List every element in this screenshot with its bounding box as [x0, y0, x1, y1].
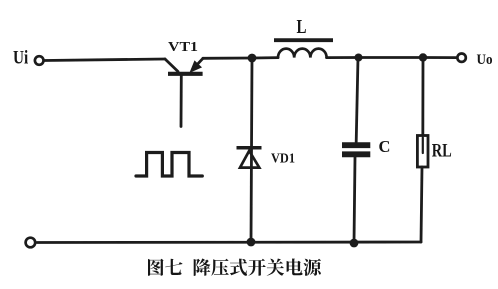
VT1 emitter arrowhead [191, 62, 201, 72]
diode VD1 triangle (anode, pointing up) [240, 151, 259, 168]
drive pulse waveform (square wave) [136, 153, 202, 177]
svg-text:Ui: Ui [13, 48, 28, 69]
wire: node B to node C [359, 56, 424, 59]
wire: node A down through diode VD1 to node D [251, 58, 252, 242]
svg-text:RL: RL [432, 140, 452, 161]
svg-text:Uo: Uo [477, 52, 493, 68]
wire: node C down to resistor RL [421, 58, 424, 153]
node D junction dot (bottom, diode) [247, 238, 256, 247]
wire: Ui terminal to VT1 emitter [44, 59, 165, 61]
resistor RL inner lead stub [422, 138, 424, 154]
svg-text:VD1: VD1 [271, 152, 295, 167]
node B junction dot (capacitor tap) [355, 54, 363, 62]
node C junction dot (RL tap) [419, 53, 427, 61]
inductor L coil [278, 49, 327, 58]
svg-text:L: L [297, 16, 307, 38]
wire: inductor to node B [327, 56, 359, 59]
wire: resistor RL down to bottom rail corner [421, 167, 422, 242]
VT1 base bar [168, 72, 203, 76]
svg-text:C: C [379, 137, 391, 156]
inductor L core bar [274, 38, 333, 42]
wire: node C to Uo terminal [423, 56, 457, 59]
node A junction dot (diode tap) [248, 54, 257, 63]
wire: node B down to capacitor C [356, 58, 358, 143]
capacitor C bottom plate [342, 151, 370, 157]
caption: figure 7 buck switching power supply [148, 259, 321, 276]
VT1 right (emitter) diagonal with arrow [193, 58, 204, 69]
bottom rail wire [37, 241, 421, 244]
wire: VT1 to node A [203, 57, 252, 60]
input terminal Ui (top-left) [35, 56, 44, 65]
svg-text:VT1: VT1 [168, 39, 198, 54]
output terminal Uo (top-right) [457, 54, 465, 62]
node E junction dot (bottom, capacitor) [350, 239, 359, 248]
capacitor C top plate [342, 142, 370, 148]
diode VD1 cathode bar [237, 146, 262, 150]
VT1 left (collector) diagonal [165, 59, 178, 72]
transistor VT1 [165, 58, 203, 126]
wire: node A to inductor [252, 56, 278, 59]
resistor RL body [417, 136, 428, 168]
wire: capacitor C to node E [354, 157, 355, 243]
VT1 base lead (down) [180, 76, 183, 127]
bottom-left terminal [26, 238, 36, 248]
